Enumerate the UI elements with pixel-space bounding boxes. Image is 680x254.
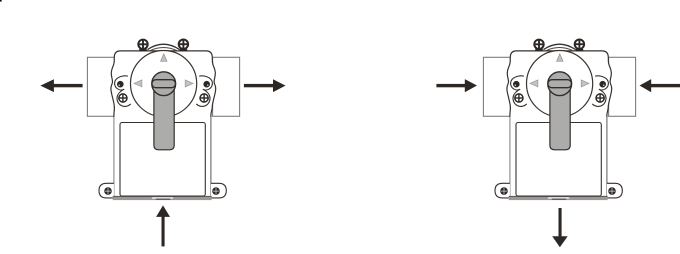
- left diagram: right outflow arrow: [244, 79, 286, 92]
- left diagram: left outflow arrow: [40, 79, 82, 92]
- left diagram: bottom inflow arrow (up): [156, 205, 170, 246]
- right diagram: left inflow arrow (right): [436, 79, 477, 92]
- valve assembly (left diagram): [87, 40, 239, 201]
- right diagram: right inflow arrow (left): [640, 79, 680, 92]
- valve assembly (right diagram): [483, 40, 635, 201]
- right diagram: bottom outflow arrow (down): [552, 208, 568, 247]
- corner border mark: [0, 0, 2, 2]
